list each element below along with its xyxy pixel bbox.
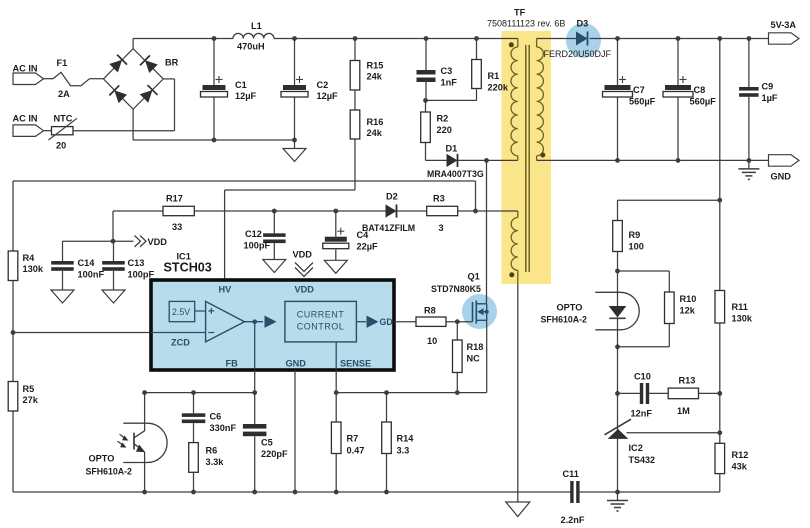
IC1 STCH03 body bbox=[151, 280, 394, 370]
resistor R5 bbox=[8, 382, 39, 412]
wire bbox=[63, 241, 114, 261]
wire drain riser bbox=[486, 160, 488, 303]
svg-text:NC: NC bbox=[467, 354, 481, 364]
wire bbox=[446, 321, 473, 323]
inductor L1 bbox=[233, 21, 274, 52]
wire R9 top bbox=[618, 200, 720, 220]
pin FB (label) bbox=[226, 359, 239, 369]
svg-text:AC IN: AC IN bbox=[13, 114, 38, 124]
svg-text:R1: R1 bbox=[488, 71, 500, 81]
node opto emitter bbox=[142, 490, 147, 495]
svg-text:C6: C6 bbox=[210, 412, 222, 422]
svg-text:24k: 24k bbox=[367, 128, 383, 138]
svg-text:D2: D2 bbox=[386, 192, 398, 202]
node C5 bottom bbox=[252, 490, 257, 495]
svg-text:SFH610A-2: SFH610A-2 bbox=[86, 467, 133, 477]
wire bbox=[132, 39, 134, 49]
wire bbox=[590, 38, 769, 40]
svg-text:12µF: 12µF bbox=[317, 91, 339, 101]
node aux feed bbox=[473, 209, 478, 214]
resistor R8 bbox=[416, 306, 446, 347]
resistor R16 bbox=[350, 110, 383, 139]
node C9 bottom bbox=[747, 158, 752, 163]
wire ZCD to IC bbox=[13, 332, 151, 334]
svg-text:5V-3A: 5V-3A bbox=[771, 20, 797, 30]
svg-text:STD7N80K5: STD7N80K5 bbox=[431, 284, 481, 294]
wire bbox=[719, 323, 721, 443]
shunt regulator IC2 TS432 bbox=[605, 419, 720, 492]
svg-text:2.2nF: 2.2nF bbox=[561, 515, 585, 525]
svg-text:12µF: 12µF bbox=[235, 91, 257, 101]
svg-text:R10: R10 bbox=[680, 294, 697, 304]
diode D2 bbox=[362, 192, 415, 234]
svg-text:2.5V: 2.5V bbox=[172, 307, 190, 317]
diode D3 bbox=[544, 19, 612, 60]
wire R17 row bbox=[194, 210, 385, 212]
capacitor C7 bbox=[603, 39, 656, 161]
node C1 bottom bbox=[212, 138, 217, 143]
opto-coupler OPTO SFH610A-2 (transistor) bbox=[86, 393, 168, 492]
node R14 bottom bbox=[384, 490, 389, 495]
svg-text:R3: R3 bbox=[433, 194, 445, 204]
connector AC IN (neutral) bbox=[13, 114, 44, 137]
node R1 top bbox=[474, 36, 479, 41]
ground (C13) bbox=[102, 290, 125, 303]
svg-text:130k: 130k bbox=[732, 314, 753, 324]
svg-text:R4: R4 bbox=[23, 253, 36, 263]
svg-text:560µF: 560µF bbox=[629, 97, 656, 107]
wire TS432 cathode bbox=[617, 347, 619, 425]
node R15 top bbox=[353, 36, 358, 41]
svg-text:3.3k: 3.3k bbox=[206, 457, 225, 467]
resistor R2 bbox=[421, 100, 452, 160]
wire R10 bottom bbox=[618, 324, 670, 347]
connector AC IN (line) bbox=[13, 64, 44, 85]
resistor R3 bbox=[427, 194, 458, 234]
node R18 bottom bbox=[455, 390, 460, 395]
resistor R12 bbox=[715, 443, 748, 492]
node R13 right bbox=[717, 391, 722, 396]
diode D3 highlight circle bbox=[566, 23, 601, 58]
node FB row bbox=[252, 390, 257, 395]
bridge diode lower-left bbox=[109, 85, 127, 103]
node TS432 ref bbox=[717, 430, 722, 435]
wire bbox=[356, 321, 366, 323]
svg-text:20: 20 bbox=[56, 141, 66, 151]
svg-text:HV: HV bbox=[219, 285, 233, 295]
wire left rail bbox=[12, 181, 14, 492]
node gate bbox=[455, 319, 460, 324]
diode D1 bbox=[426, 144, 487, 180]
wire SENSE internal drop bbox=[335, 342, 337, 368]
svg-text:100pF: 100pF bbox=[128, 270, 155, 280]
wire bbox=[397, 210, 427, 212]
thermistor NTC bbox=[49, 114, 78, 151]
transformer TF secondary phase dot bbox=[540, 153, 545, 158]
node TS432 anode bbox=[615, 490, 620, 495]
resistor R7 bbox=[331, 422, 364, 492]
svg-text:C12: C12 bbox=[245, 229, 262, 239]
svg-text:ZCD: ZCD bbox=[171, 338, 190, 348]
wire VDD drop bbox=[112, 211, 114, 241]
svg-text:22µF: 22µF bbox=[357, 242, 379, 252]
resistor R4 bbox=[8, 251, 44, 281]
node R2 top bbox=[423, 98, 428, 103]
svg-text:220pF: 220pF bbox=[261, 449, 288, 459]
wire FB internal drop bbox=[254, 322, 256, 368]
node opto LED top bbox=[615, 269, 620, 274]
svg-text:L1: L1 bbox=[251, 21, 262, 31]
transistor Q1 highlight circle bbox=[462, 294, 497, 329]
node C1 top bbox=[212, 36, 217, 41]
svg-text:12k: 12k bbox=[680, 306, 696, 316]
resistor R1 bbox=[472, 39, 509, 101]
opto-coupler OPTO SFH610A-2 (LED) bbox=[541, 271, 640, 347]
ground (output earth) bbox=[738, 160, 759, 179]
svg-text:GND: GND bbox=[286, 359, 307, 369]
wire aux to ground bbox=[517, 284, 519, 502]
resistor R9 bbox=[613, 221, 644, 272]
svg-text:R5: R5 bbox=[23, 384, 35, 394]
node C8 top bbox=[676, 36, 681, 41]
resistor R15 bbox=[350, 39, 383, 91]
signal arrow GD bbox=[367, 316, 379, 328]
node R7 bottom bbox=[334, 490, 339, 495]
wire bbox=[537, 38, 576, 40]
svg-text:C11: C11 bbox=[563, 469, 579, 479]
svg-text:C3: C3 bbox=[441, 66, 453, 76]
svg-text:CURRENT: CURRENT bbox=[297, 310, 345, 320]
resistor R6 bbox=[189, 443, 225, 492]
svg-text:C10: C10 bbox=[634, 372, 651, 382]
node C8 bottom bbox=[676, 158, 681, 163]
wire GD out bbox=[394, 321, 416, 323]
resistor R10 bbox=[665, 292, 697, 324]
transformer TF primary phase dot bbox=[509, 42, 514, 47]
wire FB row bbox=[145, 392, 255, 394]
wire R16 to HV bbox=[225, 139, 355, 280]
node C6 top bbox=[191, 390, 196, 395]
svg-text:R7: R7 bbox=[347, 434, 359, 444]
wire GND pin drop bbox=[294, 370, 296, 492]
node opto collector bbox=[142, 390, 147, 395]
wire bbox=[426, 99, 477, 101]
svg-text:33: 33 bbox=[172, 222, 182, 232]
signal arrow bbox=[265, 316, 277, 328]
wire ZCD sense line bbox=[13, 181, 476, 211]
resistor R18 bbox=[453, 322, 484, 393]
svg-text:FB: FB bbox=[226, 359, 239, 369]
wire Q1 source bbox=[336, 320, 487, 392]
capacitor C9 bbox=[739, 39, 778, 161]
wire bottom rail (secondary gnd) bbox=[580, 491, 720, 493]
transformer TF highlight bbox=[502, 31, 552, 284]
svg-text:R15: R15 bbox=[367, 61, 384, 71]
svg-text:C2: C2 bbox=[317, 80, 329, 90]
ground (C14) bbox=[51, 290, 74, 303]
svg-text:560µF: 560µF bbox=[690, 97, 717, 107]
pin ZCD bbox=[151, 333, 206, 348]
node FB internal bbox=[252, 319, 257, 324]
svg-text:SENSE: SENSE bbox=[340, 359, 371, 369]
wire bbox=[44, 78, 54, 80]
svg-text:0.47: 0.47 bbox=[347, 446, 365, 456]
svg-text:100nF: 100nF bbox=[78, 270, 105, 280]
svg-text:330nF: 330nF bbox=[210, 423, 237, 433]
svg-text:R12: R12 bbox=[732, 450, 749, 460]
node VDD bbox=[111, 239, 116, 244]
capacitor C1 bbox=[201, 39, 257, 141]
wire bbox=[44, 130, 52, 132]
node C10 row bbox=[615, 391, 620, 396]
wire SENSE drop bbox=[335, 370, 337, 422]
wire bbox=[73, 79, 175, 131]
svg-text:7508111123 rev. 6B: 7508111123 rev. 6B bbox=[487, 19, 565, 29]
svg-text:FERD20U50DJF: FERD20U50DJF bbox=[544, 49, 612, 59]
svg-text:VDD: VDD bbox=[295, 285, 315, 295]
wire op-amp out bbox=[245, 321, 264, 323]
capacitor C6 bbox=[182, 393, 237, 443]
node C7 bottom bbox=[615, 158, 620, 163]
svg-text:C9: C9 bbox=[762, 82, 774, 92]
svg-text:VDD: VDD bbox=[293, 250, 313, 260]
ground (C4) bbox=[324, 260, 347, 273]
svg-text:GD: GD bbox=[380, 317, 393, 327]
node R14 top bbox=[384, 390, 389, 395]
capacitor C12 bbox=[244, 209, 286, 260]
bridge rectifier BR (frame) bbox=[104, 49, 179, 110]
resistor R17 bbox=[113, 194, 194, 233]
node SENSE bbox=[334, 390, 339, 395]
svg-text:C1: C1 bbox=[235, 80, 247, 90]
node GND pin bottom bbox=[293, 490, 298, 495]
node D1-drain junction bbox=[484, 158, 489, 163]
wire bbox=[458, 210, 518, 212]
svg-text:220: 220 bbox=[437, 125, 452, 135]
svg-text:220k: 220k bbox=[488, 83, 509, 93]
svg-text:Q1: Q1 bbox=[468, 272, 480, 282]
svg-text:12nF: 12nF bbox=[631, 409, 653, 419]
svg-text:C14: C14 bbox=[78, 258, 96, 268]
svg-text:C5: C5 bbox=[261, 438, 273, 448]
svg-text:R11: R11 bbox=[732, 302, 748, 312]
node C3 top bbox=[424, 36, 429, 41]
op-amp IC1 STCH03 label bbox=[164, 252, 212, 275]
resistor R14 bbox=[382, 393, 415, 492]
capacitor C11 bbox=[561, 469, 585, 525]
svg-text:R8: R8 bbox=[424, 306, 436, 316]
transformer TF core bbox=[526, 45, 529, 272]
transistor Q1 STD7N80K5 bbox=[431, 272, 489, 324]
wire bottom rail bbox=[13, 491, 571, 493]
wire 5V column bbox=[719, 39, 721, 291]
pin VDD (label) bbox=[295, 285, 315, 295]
svg-text:OPTO: OPTO bbox=[557, 303, 583, 313]
svg-text:D1: D1 bbox=[446, 144, 458, 154]
bridge diode upper-right bbox=[140, 55, 158, 73]
capacitor C2 bbox=[281, 39, 338, 141]
svg-text:AC IN: AC IN bbox=[13, 64, 38, 74]
svg-text:C7: C7 bbox=[633, 85, 645, 95]
wire output gnd rail bbox=[537, 159, 769, 161]
capacitor C10 bbox=[618, 372, 669, 419]
net VDD (left) bbox=[113, 236, 167, 248]
wire bbox=[90, 78, 104, 80]
capacitor C3 bbox=[417, 39, 458, 101]
capacitor C8 bbox=[663, 39, 716, 161]
svg-text:D3: D3 bbox=[577, 19, 589, 29]
svg-text:3: 3 bbox=[439, 223, 444, 233]
capacitor C13 bbox=[102, 241, 154, 290]
svg-text:100: 100 bbox=[629, 242, 644, 252]
node C9 top bbox=[747, 36, 752, 41]
wire R10 top bbox=[618, 271, 670, 292]
svg-text:R6: R6 bbox=[206, 446, 218, 456]
reference 2.5V bbox=[169, 301, 205, 321]
svg-text:R9: R9 bbox=[629, 230, 641, 240]
node opto LED bottom bbox=[615, 344, 620, 349]
capacitor C14 bbox=[51, 258, 104, 290]
node C2 top bbox=[292, 36, 297, 41]
ground (C12) bbox=[263, 260, 286, 273]
pin GND (label) bbox=[286, 359, 307, 369]
svg-text:R2: R2 bbox=[437, 114, 449, 124]
svg-text:F1: F1 bbox=[57, 58, 68, 68]
block CURRENT CONTROL bbox=[285, 301, 357, 342]
pin GD bbox=[380, 317, 393, 327]
node C2 bottom bbox=[292, 138, 297, 143]
svg-text:27k: 27k bbox=[23, 395, 39, 405]
svg-text:TS432: TS432 bbox=[629, 455, 656, 465]
op-amp U1 (error comparator) bbox=[206, 301, 245, 342]
svg-text:STCH03: STCH03 bbox=[164, 261, 212, 275]
svg-text:1nF: 1nF bbox=[441, 78, 458, 88]
node R6 bottom bbox=[191, 490, 196, 495]
net VDD (IC pin) bbox=[293, 250, 314, 277]
node R11 column top bbox=[717, 36, 722, 41]
svg-text:MRA4007T3G: MRA4007T3G bbox=[427, 169, 484, 179]
svg-text:R16: R16 bbox=[367, 117, 384, 127]
ground (signal earth) bbox=[607, 492, 628, 511]
bridge diode lower-right bbox=[139, 85, 157, 103]
svg-text:R13: R13 bbox=[679, 376, 696, 386]
resistor R13 bbox=[668, 376, 720, 417]
wire FB drop bbox=[254, 370, 256, 424]
node R9 feed bbox=[717, 198, 722, 203]
bridge diode upper-left bbox=[109, 55, 127, 73]
svg-text:GND: GND bbox=[771, 172, 792, 182]
capacitor C5 bbox=[243, 424, 288, 492]
ground (aux winding) bbox=[506, 502, 530, 517]
transformer TF aux phase dot bbox=[509, 272, 514, 277]
svg-text:R18: R18 bbox=[467, 342, 484, 352]
wire top rail bbox=[133, 38, 518, 40]
fuse F1 bbox=[53, 58, 90, 99]
svg-text:1M: 1M bbox=[677, 406, 690, 416]
svg-text:470uH: 470uH bbox=[237, 42, 265, 52]
wire bottom input rail bbox=[133, 139, 294, 141]
svg-text:24k: 24k bbox=[367, 72, 383, 82]
capacitor C4 bbox=[323, 209, 378, 261]
svg-text:BAT41ZFILM: BAT41ZFILM bbox=[362, 223, 415, 233]
transformer TF secondary winding bbox=[537, 39, 544, 161]
svg-text:OPTO: OPTO bbox=[89, 454, 115, 464]
node C7 top bbox=[615, 36, 620, 41]
svg-text:3.3: 3.3 bbox=[397, 446, 410, 456]
wire bbox=[487, 159, 518, 161]
svg-text:CONTROL: CONTROL bbox=[297, 322, 345, 332]
pin HV bbox=[219, 285, 233, 295]
node ZCD row bbox=[11, 330, 16, 335]
svg-text:VDD: VDD bbox=[148, 237, 168, 247]
svg-text:C8: C8 bbox=[694, 85, 706, 95]
svg-text:R17: R17 bbox=[166, 194, 183, 204]
wire bbox=[354, 90, 356, 110]
transformer TF auxiliary winding bbox=[511, 211, 518, 284]
svg-text:43k: 43k bbox=[732, 462, 748, 472]
resistor R11 bbox=[715, 291, 753, 324]
ground (input) bbox=[283, 140, 306, 162]
svg-text:TF: TF bbox=[514, 8, 526, 18]
svg-text:SFH610A-2: SFH610A-2 bbox=[541, 315, 588, 325]
svg-text:NTC: NTC bbox=[54, 114, 73, 124]
svg-text:C13: C13 bbox=[128, 258, 145, 268]
svg-text:10: 10 bbox=[427, 336, 437, 346]
svg-text:100pF: 100pF bbox=[244, 241, 271, 251]
svg-text:R14: R14 bbox=[397, 434, 415, 444]
svg-text:130k: 130k bbox=[23, 264, 44, 274]
svg-text:IC2: IC2 bbox=[629, 443, 643, 453]
svg-text:1µF: 1µF bbox=[762, 93, 778, 103]
connector GND bbox=[769, 155, 800, 182]
transformer TF label bbox=[487, 8, 565, 29]
svg-text:BR: BR bbox=[165, 58, 179, 68]
transformer TF primary winding bbox=[511, 39, 518, 161]
connector 5V-3A bbox=[769, 20, 800, 44]
wire bbox=[132, 109, 134, 140]
svg-text:2A: 2A bbox=[58, 89, 70, 99]
pin SENSE (label) bbox=[340, 359, 371, 369]
